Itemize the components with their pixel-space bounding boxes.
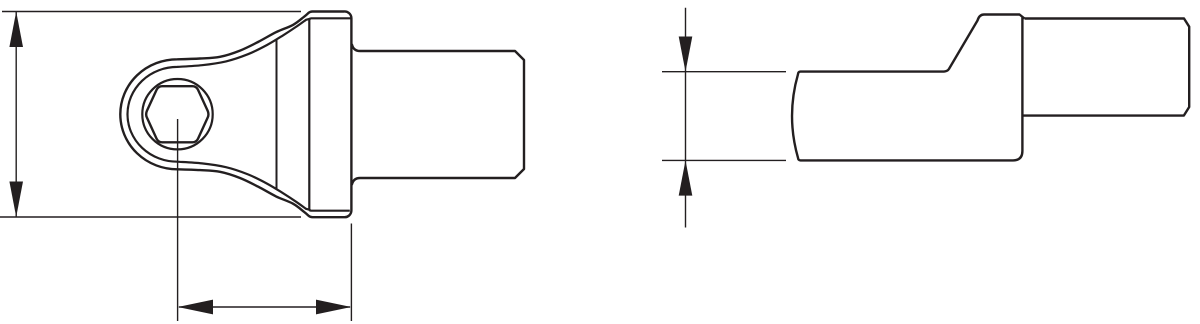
hex socket [146,86,208,142]
side view: rectangular plug block [1022,19,1189,116]
arrowhead right [316,300,351,315]
side view extension line bottom [662,159,786,161]
inner contour: neck curves and head inner arc [127,19,309,210]
extension line bottom (front view height) [0,216,301,218]
center line from hex centre [177,119,179,321]
extension line top (front view height) [2,11,301,13]
inner face rectangle of flange [309,18,350,210]
side view extension line top [662,71,786,73]
side view silhouette: blade and head [792,15,1024,161]
shank (square drive) [352,44,524,185]
side view: dimension line vertical (blade thickness) [685,8,687,228]
side view arrowhead down [679,37,693,72]
outer silhouette: head, neck and flange [120,11,351,217]
extension line right (centre distance) [350,224,352,322]
side view arrowhead up [679,160,693,195]
cone edge line [276,40,278,190]
arrowhead left [178,300,213,315]
dimension line vertical (front view height) [15,12,17,218]
arrowhead down [9,182,23,218]
boss circle around hex socket [142,79,212,149]
arrowhead up [9,12,23,48]
dimension line horizontal (centre distance) [179,306,350,308]
